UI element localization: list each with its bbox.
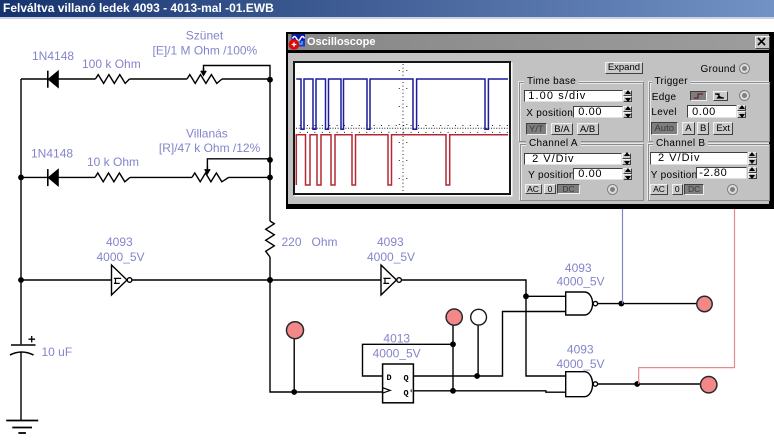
svg-text:4000_5V: 4000_5V [373,347,421,361]
wire pot1 wiper hook [204,66,271,80]
resistor R3 220 Ohm vertical [266,221,275,257]
junction NAND2 output [634,381,640,387]
wire left vertical rail [20,79,22,344]
capacitor C1 10uF [10,336,36,355]
svg-text:220 Ohm: 220 Ohm [282,235,338,249]
svg-text:1N4148: 1N4148 [32,49,74,63]
svg-text:Szünet: Szünet [186,29,224,43]
svg-text:100 k Ohm: 100 k Ohm [82,57,141,71]
wire Q' line to NAND2 [413,391,565,392]
junction row2 right [267,175,273,181]
svg-text:4093: 4093 [106,235,133,249]
resistor R1 100k [95,75,129,84]
flip-flop U5 4013 [383,364,414,403]
NAND gate U3 4093 [566,292,598,315]
svg-text:10 uF: 10 uF [42,345,73,359]
axis ticks [300,125,508,127]
svg-text:4093: 4093 [565,261,592,275]
Y/T B/A A/B buttons [526,123,548,135]
probe white [471,309,487,325]
diode D1 1N4148 [48,71,59,88]
wire LED2 stem [452,325,454,391]
Trigger groupbox [649,82,770,142]
svg-text:1N4148: 1N4148 [31,147,73,161]
field 1.00 s/div [524,90,623,102]
resistor R2 10k [95,173,130,182]
junction Q' node [450,388,456,394]
LED L1 red [697,296,712,311]
junction pot1/row1 [267,77,273,83]
svg-text:4093: 4093 [377,235,404,249]
svg-text:4000_5V: 4000_5V [97,250,145,264]
svg-text:4000_5V: 4000_5V [557,357,605,371]
Channel A groupbox [520,144,644,201]
wire D feedback loop [363,344,454,376]
svg-text:[E]/1 M Ohm /100%: [E]/1 M Ohm /100% [153,44,258,58]
main window title bar [0,0,774,17]
LED L4 red [701,377,717,393]
inverter U2 4093 [381,265,401,295]
junction Q node probe [474,373,480,379]
wire pot2 wiper hook [207,159,270,178]
svg-text:4013: 4013 [383,332,410,346]
junction NAND1 output [618,301,624,307]
svg-text:Q: Q [404,373,409,383]
junction rail left [18,277,24,283]
svg-text:4000_5V: 4000_5V [557,275,605,289]
svg-text:D: D [387,373,392,383]
window title bar [288,34,769,50]
svg-text:4093: 4093 [567,343,594,357]
potentiometer P2 [192,166,229,181]
channel A blue trace [296,79,508,129]
Ground radio [739,63,750,74]
LED L3 red [287,322,304,339]
junction row2 left [18,175,24,181]
wire top row 1 [21,78,270,80]
wire inverter2 output to NAND gates [402,280,566,376]
potentiometer P1 [187,68,222,83]
scope screen [293,61,511,195]
graticule dotted horizontal axis [296,127,508,129]
LED L2 red [446,309,462,325]
svg-text:10 k Ohm: 10 k Ohm [87,155,139,169]
wire center vertical [270,80,383,392]
wire main rail [21,279,381,281]
probe wire red channel B [639,207,735,384]
probe wire blue channel A [622,207,624,304]
close button [755,36,770,49]
wire LED3 stem [293,339,295,392]
Ground label [701,64,736,75]
junction oscillator to NAND1 [523,293,529,299]
graticule dotted vertical center [402,64,404,193]
channel B red trace [296,135,508,185]
wire below capacitor to ground [20,353,22,421]
Auto A B Ext [651,122,679,135]
diode D2 1N4148 [48,169,59,186]
ground [6,421,38,434]
wire probe stem [477,324,479,376]
junction clock LED [291,389,297,395]
instrument face [288,53,769,204]
oscilloscope window [286,32,774,209]
inverter U1 4093 [112,265,132,295]
svg-text:4000_5V: 4000_5V [367,250,415,264]
scope icon [288,34,307,50]
wire Q line to NAND1 [413,312,565,377]
junction D feedback [450,341,456,347]
Channel B groupbox [648,144,770,201]
wire NAND1 output [598,303,698,305]
wire NAND2 output [598,383,700,385]
svg-text:Villanás: Villanás [186,127,228,141]
junction rail center [267,277,273,283]
svg-text:[R]/47 k Ohm /12%: [R]/47 k Ohm /12% [159,141,261,155]
edge buttons [690,91,708,101]
svg-text:Q': Q' [404,389,414,399]
Time base groupbox [519,82,644,142]
wire row 2 [21,176,270,178]
X position [526,108,573,119]
junction pot2 wiper [267,157,273,163]
NAND gate U4 4093 [566,372,598,397]
Expand button [605,62,644,74]
